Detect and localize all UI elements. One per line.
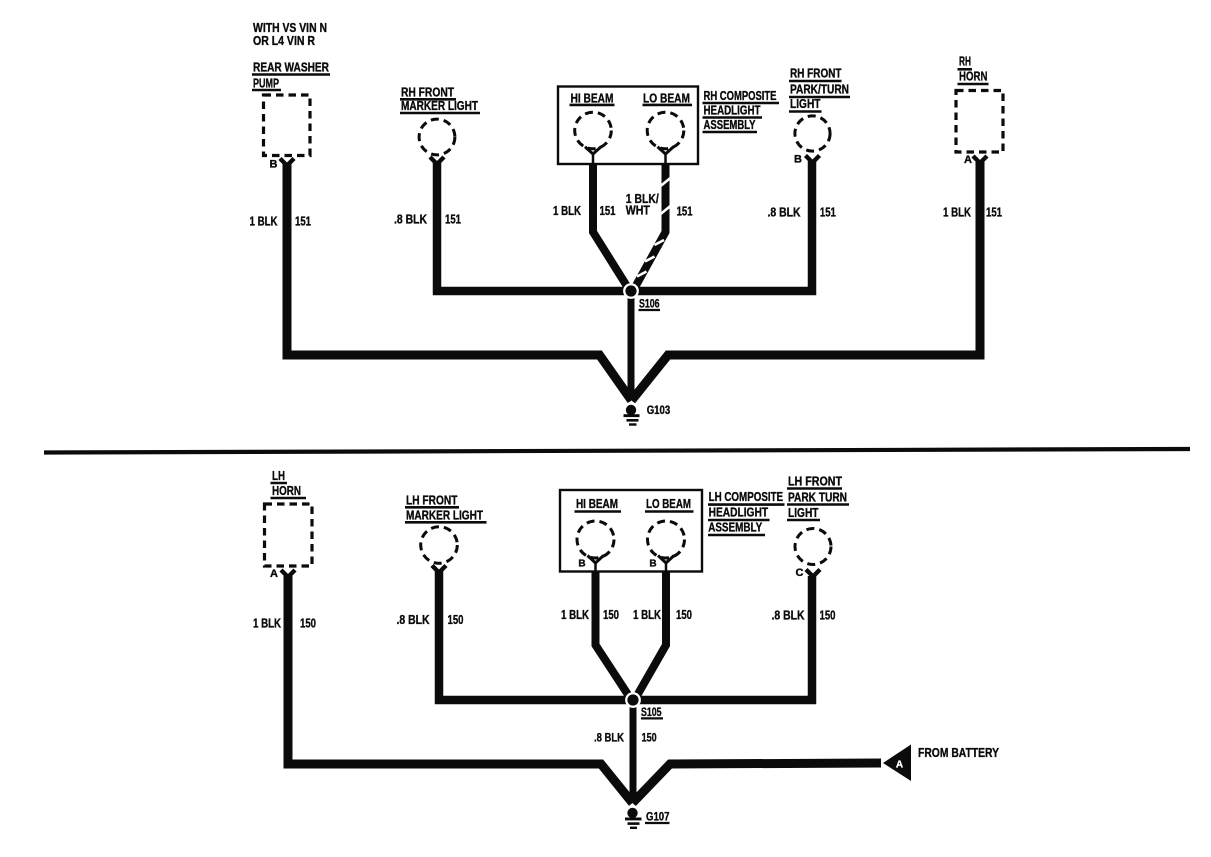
- wire: RH marker light down + S106 bus + RH park/turn down: [437, 161, 812, 291]
- pin chevron of RH hi-beam: [585, 147, 601, 164]
- wire: S105 to G107: [630, 704, 637, 803]
- svg-text:1 BLK: 1 BLK: [943, 206, 971, 220]
- svg-text:A: A: [964, 154, 972, 166]
- svg-text:PARK/TURN: PARK/TURN: [790, 83, 849, 97]
- label: RH COMPOSITE HEADLIGHT ASSEMBLY: [703, 89, 780, 132]
- label: LH FRONT MARKER LIGHT: [405, 494, 487, 523]
- svg-text:B: B: [794, 154, 802, 166]
- svg-text:1 BLK: 1 BLK: [553, 204, 581, 218]
- LH lo-beam bulb (dashed circle): [648, 521, 685, 558]
- label: LH FRONT PARK TURN LIGHT: [787, 475, 849, 521]
- wire label 1 BLK/ WHT 151 (lo beam): [626, 192, 693, 219]
- svg-text:PARK TURN: PARK TURN: [788, 491, 847, 505]
- svg-text:151: 151: [445, 213, 461, 227]
- svg-text:1 BLK: 1 BLK: [250, 215, 278, 229]
- svg-text:A: A: [896, 760, 903, 771]
- svg-text:OR L4 VIN R: OR L4 VIN R: [253, 34, 315, 48]
- wire label .8 BLK 151 (marker): [394, 213, 461, 227]
- svg-text:A: A: [270, 568, 278, 580]
- label: LO BEAM (RH): [643, 91, 693, 105]
- svg-text:PUMP: PUMP: [253, 77, 279, 91]
- pin B of LH hi-beam: [578, 556, 603, 572]
- label: LO BEAM (LH): [645, 497, 694, 512]
- svg-text:HORN: HORN: [272, 484, 301, 498]
- svg-text:150: 150: [676, 608, 692, 622]
- svg-text:S105: S105: [641, 707, 662, 719]
- svg-text:151: 151: [986, 206, 1002, 220]
- off-page connector A (from battery): [883, 745, 999, 782]
- wire label .8 BLK 151 (park/turn): [768, 206, 836, 220]
- svg-text:HEADLIGHT: HEADLIGHT: [709, 505, 769, 519]
- svg-text:HEADLIGHT: HEADLIGHT: [704, 104, 761, 118]
- RH composite headlight assembly box: [558, 87, 698, 165]
- pin chevron of RH lo-beam: [658, 147, 674, 164]
- svg-text:150: 150: [300, 617, 316, 631]
- svg-text:1 BLK: 1 BLK: [561, 608, 589, 622]
- wire: right ground bus from battery feed to G107 apex: [633, 763, 882, 803]
- splice S105: [625, 692, 663, 719]
- LH composite headlight assembly box: [560, 490, 702, 572]
- wire label 1 BLK 151 (horn): [943, 206, 1002, 220]
- wire label .8 BLK 150 (ground lead): [594, 733, 657, 745]
- pin B of RH park/turn light: [794, 154, 819, 166]
- wire label 1 BLK 150 (LH hi beam): [561, 608, 619, 622]
- pin C of LH park turn light: [796, 567, 820, 579]
- svg-text:LH COMPOSITE: LH COMPOSITE: [709, 490, 784, 504]
- svg-text:G103: G103: [647, 405, 671, 417]
- svg-text:1 BLK: 1 BLK: [253, 617, 281, 631]
- svg-text:HI BEAM: HI BEAM: [576, 497, 618, 511]
- svg-text:FROM BATTERY: FROM BATTERY: [918, 745, 999, 760]
- label: RH HORN: [958, 55, 989, 85]
- svg-text:.8 BLK: .8 BLK: [397, 613, 430, 627]
- svg-text:.8 BLK: .8 BLK: [768, 206, 801, 220]
- svg-text:G107: G107: [646, 812, 670, 824]
- pin chevron of RH marker light: [430, 157, 444, 164]
- pin A of LH horn: [270, 568, 295, 580]
- svg-text:LO BEAM: LO BEAM: [643, 91, 690, 105]
- svg-text:150: 150: [603, 608, 619, 622]
- label: REAR WASHER PUMP: [252, 61, 330, 91]
- svg-text:MARKER LIGHT: MARKER LIGHT: [406, 509, 483, 523]
- wire: S106 to G103: [628, 295, 635, 400]
- label: RH FRONT MARKER LIGHT: [400, 85, 480, 113]
- pin A of RH horn: [964, 154, 987, 166]
- RH hi-beam bulb (dashed circle): [575, 112, 612, 149]
- svg-text:.8 BLK: .8 BLK: [772, 609, 805, 623]
- wire label .8 BLK 150 (LH marker): [397, 613, 464, 627]
- wire label 1 BLK 151 (hi beam): [553, 204, 616, 218]
- splice S106: [623, 283, 660, 311]
- wire: LH marker light down + S105 bus + LH park turn down: [439, 571, 812, 700]
- wire: LH lo-beam to S105: [635, 571, 667, 700]
- svg-text:151: 151: [600, 204, 616, 218]
- svg-text:LH: LH: [272, 469, 285, 483]
- RH lo-beam bulb (dashed circle): [647, 112, 684, 149]
- wire label 1 BLK 150 (LH horn): [253, 617, 316, 631]
- svg-text:150: 150: [448, 613, 464, 627]
- svg-text:ASSEMBLY: ASSEMBLY: [704, 118, 756, 132]
- svg-text:C: C: [796, 567, 804, 579]
- RH horn connector (dashed box): [956, 91, 1003, 153]
- divider line: [44, 449, 1190, 453]
- RH front marker light bulb (dashed circle): [419, 119, 455, 155]
- svg-text:RH COMPOSITE: RH COMPOSITE: [704, 89, 777, 103]
- ground G103: [623, 402, 670, 426]
- wire label 1 BLK 150 (LH lo beam): [633, 608, 692, 622]
- wire: RH lo-beam to S106 (BLK/WHT hatched): [633, 164, 671, 291]
- svg-text:151: 151: [677, 205, 693, 219]
- wire: RH horn down + right ground bus to G103 apex: [632, 162, 981, 401]
- LH front park turn bulb (dashed circle): [795, 529, 831, 565]
- svg-text:LO BEAM: LO BEAM: [646, 497, 691, 511]
- wire label 1 BLK 151 (washer): [250, 215, 312, 229]
- svg-text:1 BLK: 1 BLK: [633, 608, 661, 622]
- LH horn connector (dashed box): [265, 504, 313, 566]
- pin B of LH lo-beam: [649, 556, 674, 572]
- svg-text:MARKER LIGHT: MARKER LIGHT: [401, 99, 478, 113]
- svg-text:151: 151: [820, 206, 836, 220]
- svg-text:WITH VS VIN N: WITH VS VIN N: [253, 21, 327, 35]
- LH hi-beam bulb (dashed circle): [577, 521, 614, 558]
- wire: rear washer pump down + left ground bus to G103 apex: [287, 164, 632, 401]
- svg-text:WHT: WHT: [626, 204, 650, 218]
- svg-text:151: 151: [295, 215, 311, 229]
- wire: RH hi-beam to S106: [593, 164, 630, 291]
- RH front park/turn bulb (dashed circle): [795, 116, 830, 151]
- svg-text:HI BEAM: HI BEAM: [571, 91, 614, 105]
- svg-text:RH FRONT: RH FRONT: [401, 85, 454, 99]
- note: WITH VS VIN N OR L4 VIN R: [253, 21, 327, 48]
- svg-text:LH FRONT: LH FRONT: [788, 475, 842, 489]
- svg-text:REAR WASHER: REAR WASHER: [253, 61, 329, 75]
- svg-text:HORN: HORN: [959, 70, 988, 84]
- svg-text:LIGHT: LIGHT: [788, 506, 819, 520]
- pin chevron of LH marker light: [432, 566, 446, 573]
- label: LH HORN: [271, 469, 307, 498]
- label: LH COMPOSITE HEADLIGHT ASSEMBLY: [708, 490, 785, 535]
- label: HI BEAM (RH): [570, 91, 615, 105]
- rear washer pump connector (dashed box): [264, 95, 311, 156]
- svg-text:LH FRONT: LH FRONT: [406, 494, 458, 508]
- svg-text:RH FRONT: RH FRONT: [790, 67, 842, 81]
- wire: LH horn down + left ground bus to G107 apex: [288, 576, 633, 803]
- pin B of rear washer pump: [270, 159, 294, 171]
- svg-text:B: B: [649, 559, 656, 570]
- svg-text:.8 BLK: .8 BLK: [394, 213, 427, 227]
- ground G107: [625, 805, 670, 829]
- svg-text:ASSEMBLY: ASSEMBLY: [708, 520, 763, 534]
- wire: LH hi-beam to S105: [596, 571, 632, 700]
- wire label .8 BLK 150 (LH park turn): [772, 609, 836, 623]
- label: HI BEAM (LH): [575, 497, 622, 512]
- svg-text:RH: RH: [959, 55, 971, 69]
- svg-text:B: B: [270, 159, 278, 171]
- svg-text:LIGHT: LIGHT: [790, 97, 821, 111]
- LH front marker light bulb (dashed circle): [421, 527, 458, 564]
- label: RH FRONT PARK/TURN LIGHT: [789, 67, 850, 112]
- svg-text:B: B: [578, 559, 585, 570]
- svg-text:150: 150: [642, 733, 657, 745]
- svg-text:.8 BLK: .8 BLK: [594, 733, 625, 745]
- svg-text:150: 150: [820, 609, 836, 623]
